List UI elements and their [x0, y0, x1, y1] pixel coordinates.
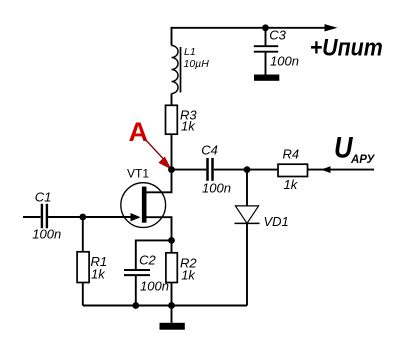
- capacitor C2: [124, 269, 150, 271]
- wire top supply rail: [171, 27, 327, 29]
- svg-text:10µH: 10µH: [184, 58, 210, 70]
- ground bar under C3: [254, 75, 279, 81]
- diode VD1 triangle: [235, 206, 258, 223]
- arrow to +Upit: [325, 24, 338, 31]
- wire C3 top lead: [265, 28, 267, 46]
- wire VD1 cathode to ground rail: [246, 223, 248, 305]
- wire L1 top lead: [171, 27, 173, 46]
- wire source node to R2: [171, 240, 173, 253]
- capacitor C1: [41, 204, 43, 229]
- transistor VT1 circle: [121, 183, 166, 228]
- wire L1 to R3: [171, 94, 173, 106]
- wire bottom ground rail: [83, 305, 247, 307]
- junction dot source node: [168, 237, 175, 244]
- svg-text:1k: 1k: [91, 266, 106, 281]
- wire input lead: [23, 216, 41, 218]
- red arrow to node A: [144, 138, 164, 159]
- svg-text:A: A: [129, 117, 149, 147]
- wire VD1 anode lead: [246, 170, 248, 206]
- junction dot C1/R1: [79, 214, 86, 221]
- resistor R1: [77, 252, 89, 283]
- ground symbol stem: [171, 306, 173, 323]
- svg-text:100n: 100n: [140, 278, 169, 293]
- junction dot R2 ground: [168, 302, 175, 309]
- wire C2 to ground rail: [135, 276, 137, 306]
- wire C3 bottom lead: [265, 53, 267, 75]
- svg-text:VT1: VT1: [127, 166, 149, 180]
- svg-text:L1: L1: [184, 46, 196, 58]
- capacitor C4: [206, 158, 209, 181]
- capacitor C3: [254, 45, 278, 47]
- transistor VT1 channel bar: [142, 187, 147, 223]
- svg-text:C2: C2: [139, 252, 156, 267]
- wire node A to C4: [172, 169, 207, 171]
- wire R3 to node A: [171, 134, 173, 170]
- resistor R4: [278, 164, 308, 176]
- resistor R2: [166, 253, 177, 283]
- wire C4 to R4: [214, 169, 278, 171]
- wire source node to C2: [136, 240, 172, 269]
- wire R1 to ground rail: [82, 283, 84, 306]
- junction dot C2 ground: [132, 302, 139, 309]
- svg-text:1k: 1k: [181, 268, 196, 283]
- svg-text:100n: 100n: [202, 181, 231, 196]
- svg-text:R4: R4: [283, 147, 300, 162]
- junction dot VD1 tap: [244, 166, 251, 173]
- junction dot C3 tap: [262, 24, 269, 31]
- svg-text:VD1: VD1: [264, 214, 289, 229]
- svg-text:+Uпит: +Uпит: [310, 34, 383, 61]
- svg-text:C3: C3: [269, 28, 286, 43]
- ground symbol bar: [160, 323, 185, 330]
- wire R2 to ground rail: [171, 283, 173, 306]
- wire junction to R1: [82, 217, 84, 252]
- diode VD1 cathode bar: [235, 222, 260, 224]
- svg-text:100n: 100n: [32, 227, 61, 242]
- svg-text:C4: C4: [201, 143, 218, 158]
- resistor R3: [166, 105, 178, 134]
- svg-text:1k: 1k: [181, 119, 196, 134]
- svg-text:100n: 100n: [270, 54, 299, 69]
- wire R4 to U_ARU: [308, 169, 375, 171]
- inductor L1: [172, 46, 179, 94]
- arrowhead from U_ARU: [321, 166, 331, 173]
- transistor VT1 gate arrow: [131, 213, 141, 221]
- node A junction dot: [168, 166, 175, 173]
- transistor VT1 source lead: [147, 217, 172, 240]
- transistor VT1 drain lead: [147, 171, 172, 192]
- svg-text:АРУ: АРУ: [350, 154, 376, 166]
- svg-text:C1: C1: [35, 189, 52, 204]
- inductor L1 core line: [180, 47, 182, 93]
- svg-text:1k: 1k: [284, 177, 299, 192]
- wire C1 to gate: [48, 216, 132, 218]
